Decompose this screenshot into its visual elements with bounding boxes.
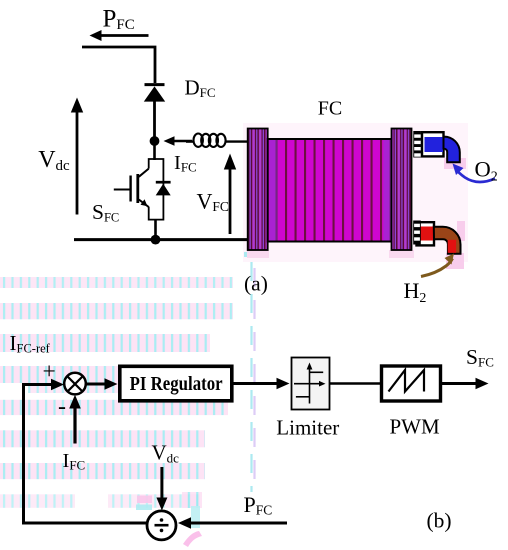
artifact band 5: [0, 400, 228, 415]
transistor gate lead: [114, 189, 130, 191]
svg-text:Vdc: Vdc: [38, 147, 70, 174]
svg-text:PWM: PWM: [390, 415, 441, 439]
wire feedback path: [24, 385, 148, 524]
svg-text:PFC: PFC: [244, 492, 273, 518]
block PWM with sawtooth: [382, 366, 441, 401]
wire transistor to bottom node: [154, 220, 157, 240]
divider circle: [147, 511, 176, 540]
arrow O2 (curved into pipe): [453, 164, 496, 183]
FC stack right end plate: [392, 129, 412, 251]
artifact pink below left plate: [247, 250, 269, 258]
artifact pink below right plate: [389, 250, 414, 258]
wire top bus: [82, 47, 155, 83]
inductor L: [186, 134, 249, 147]
FC stack left end plate: [248, 129, 268, 251]
svg-text:PFC: PFC: [103, 5, 135, 33]
arrow into summer (right-pointing): [22, 379, 64, 390]
arrow V_dc down into divider: [156, 467, 167, 511]
transistor emitter lead with arrow: [139, 199, 149, 207]
svg-text:FC: FC: [318, 98, 342, 120]
manifold comb bottom: [413, 221, 421, 245]
svg-text:O2: O2: [475, 157, 498, 185]
artifact dashed separator line lavender: [253, 268, 255, 492]
pipe H2 elbow: [434, 227, 461, 254]
node bottom: [151, 235, 161, 245]
artifact pink halo behind FC stack: [243, 123, 468, 262]
svg-text:SFC: SFC: [92, 200, 119, 225]
artifact band 4: [0, 366, 207, 383]
manifold comb top: [413, 131, 421, 158]
svg-text:(b): (b): [427, 509, 452, 533]
summer circle with X: [64, 373, 86, 395]
svg-text:DFC: DFC: [185, 76, 216, 101]
arrow PWM output S_FC (right-pointing): [442, 378, 489, 389]
arrow PI to Limiter (right-pointing): [234, 378, 290, 389]
artifact pink around bottom pipe: [446, 253, 464, 269]
svg-text:VFC: VFC: [197, 189, 229, 215]
artifact patch near divider: [182, 492, 202, 508]
artifact cyan sliver below left plate: [244, 252, 252, 257]
arrow H2 (curved into pipe): [421, 254, 454, 277]
manifold box bottom: [417, 222, 435, 245]
arrow I_FC into node (left-pointing): [164, 136, 193, 146]
artifact band 6: [0, 430, 205, 447]
pipe O2 elbow: [444, 137, 460, 163]
block Limiter: [292, 358, 330, 410]
arrow V_FC (up): [224, 154, 236, 235]
arrow minus input (up-pointing): [69, 395, 81, 444]
svg-text:IFC: IFC: [174, 152, 197, 175]
transistor S_FC IGBT outline: [149, 159, 164, 220]
artifact band 8: [0, 494, 75, 508]
svg-text:SFC: SFC: [466, 345, 494, 370]
artifact band 4b (around summer): [28, 383, 123, 393]
artifact cyan blob left of divider: [136, 505, 152, 511]
block PI Regulator: [120, 366, 232, 401]
red inlet inside box: [421, 227, 434, 241]
wire bottom bus: [74, 238, 249, 241]
arrow summer to PI (right-pointing): [86, 378, 118, 389]
arrow P_FC (left-pointing): [90, 30, 149, 41]
artifact band 2: [0, 303, 233, 319]
svg-text:Limiter: Limiter: [276, 416, 339, 440]
svg-text:(a): (a): [244, 272, 268, 296]
svg-text:-: -: [58, 394, 66, 420]
transistor gate bar: [129, 176, 131, 202]
artifact dashed separator line cyan: [250, 262, 252, 492]
transistor collector lead: [139, 169, 149, 177]
svg-text:IFC: IFC: [63, 450, 86, 473]
diode D_FC: [144, 85, 165, 141]
artifact pink blob left of divider: [137, 496, 152, 504]
artifact band 1: [0, 277, 233, 288]
arrow V_dc (up): [71, 98, 83, 215]
node switch-node: [150, 136, 160, 146]
artifact pink right of bottom pipe: [457, 221, 465, 241]
transistor body bar: [136, 174, 139, 203]
manifold box top: [422, 132, 444, 156]
FC stack bluish cell right: [384, 140, 392, 241]
arrow P_FC into divider (left-pointing): [178, 517, 287, 529]
artifact band 3: [0, 334, 210, 352]
red segment in pipe outlet: [448, 240, 456, 253]
svg-text:H2: H2: [404, 278, 427, 306]
artifact cyan column right of divider: [191, 506, 200, 528]
artifact pink below blue pipe: [444, 158, 466, 169]
diode antiparallel (inside module): [156, 182, 171, 195]
svg-text:PI Regulator: PI Regulator: [130, 373, 223, 395]
wire node to transistor: [153, 141, 156, 160]
artifact pink swirl below divider: [183, 531, 202, 547]
FC stack bluish cell left: [270, 140, 278, 241]
wire Limiter to PWM: [330, 382, 382, 385]
FC stack body: [268, 139, 392, 242]
artifact band 7: [0, 463, 205, 479]
blue inlet inside box: [425, 137, 444, 152]
